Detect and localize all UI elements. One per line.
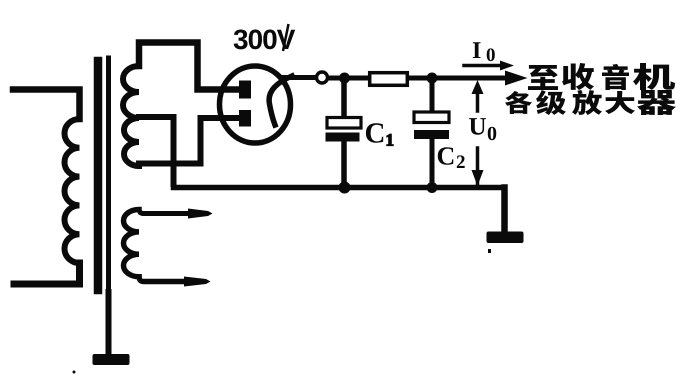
label 300V (234, 29, 296, 49)
capacitor C2 top lead (430, 78, 435, 112)
label char 放 (572, 90, 602, 115)
wire node to arrow (main B+ rail) (328, 76, 507, 81)
transformer T1 primary winding (65, 119, 80, 263)
junction dot C1 top (339, 73, 350, 84)
label char 大 (605, 91, 635, 114)
label char 收 (562, 63, 594, 90)
label char 音 (602, 64, 629, 90)
junction dot C2 top (427, 73, 438, 84)
wire core to ground (106, 292, 112, 356)
capacitor C2 bottom lead (430, 139, 435, 187)
wire HV center tap to bus (139, 117, 174, 184)
transformer core solid bar (94, 61, 103, 290)
label C1 (C) (366, 123, 383, 142)
label U0 (U) (469, 118, 486, 135)
tube V1 cathode arc (269, 76, 292, 125)
tube V1 lower anode plate (239, 110, 251, 127)
wire filament bottom lead (139, 277, 184, 282)
label char 机 (633, 63, 675, 90)
wire ground bus (174, 185, 505, 191)
artifact slash through V (283, 24, 289, 51)
right ground symbol bar (487, 232, 524, 244)
core ground symbol bar (93, 354, 130, 365)
U0 arrow upper segment (476, 87, 480, 111)
filament top lead arrowhead (188, 209, 213, 219)
I0 arrowhead (500, 61, 514, 71)
capacitor C1 top plate (hollow) (327, 118, 361, 129)
label C2 (C) (438, 147, 454, 164)
wire HV top tap to upper anode (139, 43, 239, 90)
speck noise dot (73, 371, 76, 374)
capacitor C1 top lead (341, 78, 347, 117)
wire primary top lead (13, 90, 80, 120)
wire primary bottom lead (14, 263, 80, 284)
transformer T1 filament winding (123, 210, 139, 277)
label C2 (sub 2) (457, 155, 465, 168)
label U0 (sub 0) (488, 127, 496, 140)
wire bus to right ground (501, 188, 508, 235)
I0 current arrow line (464, 64, 502, 68)
choke/resistor box on B+ rail (370, 73, 408, 86)
capacitor C1 bottom lead (341, 141, 347, 187)
label I0 (sub 0) (487, 48, 495, 61)
capacitor C2 top plate (hollow) (414, 112, 449, 123)
wire tube output to node (284, 75, 316, 80)
U0 arrow lower segment (476, 148, 480, 184)
label char 各 (505, 91, 532, 114)
rectifier tube V1 envelope (220, 66, 291, 143)
wire HV bottom tap to lower anode (139, 118, 239, 164)
wire filament top lead (139, 210, 188, 214)
label char 器 (637, 90, 676, 115)
label C1 (sub 1) (387, 134, 393, 145)
transformer T1 HV secondary winding (123, 66, 139, 166)
transformer core laminated bar (106, 58, 111, 294)
node terminal circle (317, 72, 328, 83)
output arrowhead to amplifier (505, 71, 528, 86)
junction dot C1 bottom (339, 182, 351, 194)
filament bottom lead arrowhead (184, 277, 211, 287)
label char 至 (528, 65, 558, 90)
capacitor C2 bottom plate (solid) (414, 130, 449, 139)
label I0 (I) (473, 42, 481, 58)
capacitor C1 bottom plate (solid) (326, 133, 360, 142)
tube V1 upper anode plate (239, 81, 251, 99)
U0 arrowhead up (472, 80, 484, 94)
U0 arrowhead down (472, 170, 484, 186)
speck below right ground (488, 249, 491, 253)
label char 级 (536, 90, 566, 115)
junction dot C2 bottom (427, 182, 438, 193)
